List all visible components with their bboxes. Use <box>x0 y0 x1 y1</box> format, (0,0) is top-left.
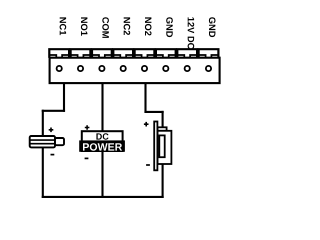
wire segment: vertical through power jack <box>162 112 164 197</box>
wire segment: bottom ground bus <box>43 196 163 198</box>
label NO2 <box>145 17 152 35</box>
electric lock stripe lines <box>30 140 55 144</box>
wire segment: NO1 terminal drop <box>63 83 65 111</box>
label GND (power side) <box>209 17 216 37</box>
screw tab 8 <box>199 49 219 58</box>
screw tab 3 <box>92 49 112 58</box>
screw hole 1 <box>57 66 62 71</box>
wire segment: horizontal jog from NO2 drop to jack <box>146 111 163 113</box>
terminal block body <box>50 58 220 83</box>
electric lock body <box>30 136 55 147</box>
screw tab 5 <box>135 49 155 58</box>
DC power plus mark <box>85 125 90 130</box>
power jack step <box>158 127 167 131</box>
screw tab 4 <box>113 49 133 58</box>
screw tab 6 <box>156 49 176 58</box>
jack plus mark <box>144 122 149 127</box>
screw hole 7 <box>185 66 190 71</box>
label COM <box>102 17 109 38</box>
label 12V DC <box>188 17 195 49</box>
wire segment: horizontal jog toward lock <box>43 110 64 112</box>
label GND (relay side) <box>166 17 173 37</box>
wire segment: vertical through electric lock to bus <box>42 111 44 197</box>
jack minus mark <box>146 164 150 166</box>
screw tab 7 <box>177 49 197 58</box>
screw hole 4 <box>121 66 126 71</box>
wire segment: NO2 terminal drop <box>144 83 146 112</box>
DC power box black band <box>79 140 125 151</box>
wire segment: COM terminal down through DC power box to ground bus <box>101 83 103 197</box>
power jack inner contact <box>159 135 164 157</box>
power jack body <box>158 131 172 164</box>
DC power label line 2 <box>83 143 122 151</box>
electric lock knob <box>55 138 64 145</box>
label NC2 <box>124 17 131 35</box>
screw hole 2 <box>78 66 83 71</box>
lock plus mark <box>49 128 54 133</box>
screw hole 6 <box>163 66 168 71</box>
screw hole 8 <box>206 66 211 71</box>
screw tab 2 <box>71 49 91 58</box>
DC power box outline <box>82 131 123 151</box>
screw hole 5 <box>142 66 147 71</box>
screw tab 1 <box>49 49 69 58</box>
DC power minus mark <box>85 157 89 159</box>
screw hole 3 <box>99 66 104 71</box>
power jack plate <box>154 122 157 171</box>
DC power label line 1 <box>96 133 108 139</box>
label NO1 <box>81 17 88 35</box>
lock minus mark <box>51 154 55 156</box>
label NC1 <box>60 17 67 35</box>
